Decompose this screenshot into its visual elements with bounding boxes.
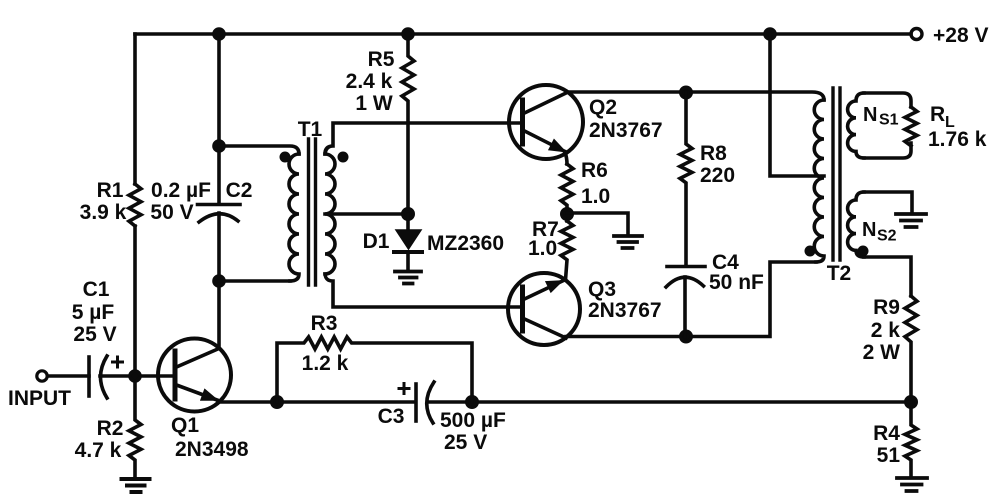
svg-text:R3: R3 xyxy=(311,312,338,335)
wire NS2 top lead to ground xyxy=(864,192,912,213)
svg-text:R1: R1 xyxy=(97,179,124,202)
T1 core xyxy=(309,139,316,285)
svg-text:25 V: 25 V xyxy=(444,431,487,454)
svg-text:T2: T2 xyxy=(827,262,852,285)
transistor Q2 xyxy=(509,85,583,159)
svg-text:1.76 k: 1.76 k xyxy=(928,128,987,151)
wire R1 bottom to input node xyxy=(133,226,137,376)
resistor R4 xyxy=(905,402,917,477)
node input terminal xyxy=(37,371,47,381)
wire Q1 collector up xyxy=(217,281,221,349)
resistor R3 xyxy=(277,337,472,402)
plus sign C3 xyxy=(399,384,409,394)
node C2-T1 top junction xyxy=(214,141,224,151)
svg-text:S2: S2 xyxy=(877,228,897,245)
wire NS1 loop with RL xyxy=(864,93,911,107)
winding NS2 xyxy=(848,192,864,257)
T2 phase dot primary xyxy=(805,246,816,257)
terminal +28V xyxy=(911,29,922,40)
transformer T1 primary winding xyxy=(289,154,299,281)
transistor Q3 xyxy=(508,273,580,345)
capacitor C4 xyxy=(667,265,705,269)
svg-text:50 nF: 50 nF xyxy=(709,271,764,294)
svg-text:1.2 k: 1.2 k xyxy=(302,352,349,375)
node base junction xyxy=(130,371,140,381)
svg-text:INPUT: INPUT xyxy=(8,387,71,410)
T2 phase dot NS2 xyxy=(858,246,869,257)
wire T1 secondary bottom lead to Q3 base xyxy=(325,274,520,307)
svg-text:50 V: 50 V xyxy=(150,201,193,224)
resistor R2 xyxy=(129,376,141,478)
svg-text:D1: D1 xyxy=(363,230,390,253)
ground at R6 R7 node xyxy=(614,236,642,248)
svg-text:3.9 k: 3.9 k xyxy=(80,201,127,224)
ground NS2 xyxy=(896,214,926,227)
resistor R1 xyxy=(129,184,141,226)
T1 phase dot secondary xyxy=(338,152,349,163)
svg-text:51: 51 xyxy=(877,444,901,467)
node top rail R5 junction xyxy=(403,29,413,39)
wire T1 primary top lead xyxy=(219,146,299,154)
svg-text:2 k: 2 k xyxy=(871,319,901,342)
resistor R8 xyxy=(680,93,692,267)
svg-text:N: N xyxy=(863,104,877,126)
svg-text:R5: R5 xyxy=(368,48,395,71)
node Q2 collector R8 junction xyxy=(681,87,691,97)
wire Q2 emitter to R6 xyxy=(565,152,567,164)
wire C1 to Q1 base xyxy=(100,374,173,378)
svg-text:R8: R8 xyxy=(700,142,727,165)
svg-text:2N3767: 2N3767 xyxy=(588,299,662,322)
wire NS2 bottom lead xyxy=(864,257,911,296)
ground under D1 xyxy=(395,272,421,284)
wire T1 secondary center tap xyxy=(325,212,408,216)
wire main bottom rail xyxy=(218,400,911,404)
svg-text:R9: R9 xyxy=(873,296,900,319)
node R3 right junction xyxy=(467,397,477,407)
ground under R4 xyxy=(897,478,927,491)
wire T1 secondary top lead to Q2 base xyxy=(325,123,520,154)
svg-text:220: 220 xyxy=(700,164,735,187)
node top rail center tap junction xyxy=(765,29,775,39)
ground under R2 xyxy=(122,479,150,492)
svg-text:C3: C3 xyxy=(378,405,405,428)
svg-text:500 µF: 500 µF xyxy=(440,409,506,432)
svg-text:2.4 k: 2.4 k xyxy=(346,70,393,93)
svg-text:T1: T1 xyxy=(298,118,323,141)
svg-text:Q2: Q2 xyxy=(589,96,617,119)
svg-text:25 V: 25 V xyxy=(73,323,116,346)
T2 core xyxy=(833,88,840,260)
wire Q2 collector to T2 top xyxy=(567,92,824,100)
wire left rail down to R1 xyxy=(133,34,137,184)
node Q3 collector C4 junction xyxy=(681,331,691,341)
svg-text:4.7 k: 4.7 k xyxy=(75,439,122,462)
svg-text:S1: S1 xyxy=(879,112,899,129)
svg-text:MZ2360: MZ2360 xyxy=(427,232,504,255)
resistor R9 xyxy=(905,296,917,402)
wire C2 branch from top rail xyxy=(217,34,221,204)
svg-text:R4: R4 xyxy=(873,422,900,445)
svg-text:R6: R6 xyxy=(581,159,608,182)
node R9 R4 junction xyxy=(906,397,916,407)
transformer T1 secondary winding xyxy=(325,154,335,274)
svg-text:R: R xyxy=(930,103,945,126)
diode D1 xyxy=(406,214,410,230)
wire top supply rail xyxy=(135,32,911,36)
transistor Q1 xyxy=(158,339,231,412)
node C2-T1 bottom junction xyxy=(214,276,224,286)
capacitor C2 xyxy=(198,203,241,207)
wire input to C1 xyxy=(48,374,90,378)
resistor RL xyxy=(905,107,917,146)
node top rail C2 junction xyxy=(214,29,224,39)
wire T1 primary bottom lead xyxy=(219,279,290,283)
plus sign C1 xyxy=(113,357,123,367)
svg-text:2 W: 2 W xyxy=(863,341,901,364)
wire Q3 collector to T2 bottom xyxy=(566,262,816,337)
svg-text:1.0: 1.0 xyxy=(528,237,557,260)
svg-text:N: N xyxy=(862,219,876,241)
capacitor C3 xyxy=(414,384,418,421)
svg-text:R2: R2 xyxy=(97,417,124,440)
transformer T2 primary winding xyxy=(814,100,824,262)
svg-text:0.2 µF: 0.2 µF xyxy=(151,179,211,202)
node R3 left junction xyxy=(272,397,282,407)
svg-text:1.0: 1.0 xyxy=(581,185,610,208)
svg-text:1 W: 1 W xyxy=(355,92,393,115)
svg-text:Q1: Q1 xyxy=(171,414,199,437)
node R5 D1 tap junction xyxy=(403,209,413,219)
svg-text:5 µF: 5 µF xyxy=(72,301,115,324)
svg-text:2N3767: 2N3767 xyxy=(589,119,663,142)
svg-text:C1: C1 xyxy=(83,278,110,301)
capacitor C1 xyxy=(87,357,91,396)
svg-text:Q3: Q3 xyxy=(588,278,616,301)
svg-text:+28 V: +28 V xyxy=(933,24,988,47)
wire junction to ground xyxy=(567,213,628,235)
resistor R5 xyxy=(402,34,414,214)
T1 phase dot primary xyxy=(280,152,291,163)
svg-text:C2: C2 xyxy=(226,179,253,202)
resistor R6 xyxy=(561,164,573,221)
winding NS1 xyxy=(848,93,864,158)
resistor R7 xyxy=(561,221,573,280)
wire center tap drop xyxy=(770,34,824,176)
svg-text:2N3498: 2N3498 xyxy=(175,438,249,461)
node R6 R7 junction xyxy=(562,209,572,219)
